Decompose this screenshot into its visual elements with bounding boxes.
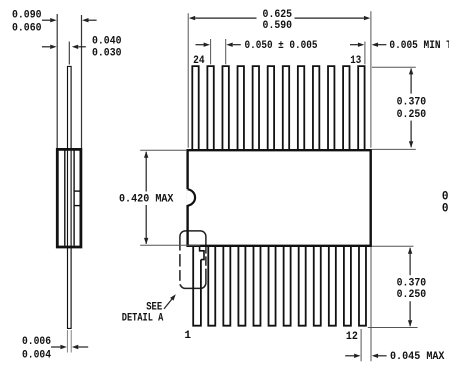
pin 18 (283, 66, 289, 150)
wire : pin 22 centerline extension (225, 39, 227, 64)
wire : left body-edge extension up (187, 13, 189, 148)
node side body window segment upper (74, 190, 80, 192)
wire : pin-top extension right (372, 66, 416, 68)
svg-text:DETAIL A: DETAIL A (122, 313, 164, 325)
svg-text:1: 1 (184, 330, 191, 342)
IC package body (188, 150, 371, 246)
node 0.090/0.060 dimension arrows (42, 19, 50, 21)
node 0.040/0.030 dimension arrows (42, 46, 50, 48)
svg-text:12: 12 (346, 331, 358, 343)
pin 23 (207, 66, 213, 150)
svg-text:0.050 ± 0.005: 0.050 ± 0.005 (245, 40, 318, 52)
pin 17 (298, 66, 304, 150)
node 0.006/0.004 dimension arrows (51, 346, 60, 348)
node 0.370/0.250 top dimension line (410, 69, 412, 148)
svg-text:0.030: 0.030 (442, 202, 449, 216)
wire : side-view left extension line (56, 14, 58, 148)
pin 10 (329, 246, 336, 326)
package body side profile (57, 149, 81, 247)
svg-text:0.250: 0.250 (397, 109, 427, 121)
wire : lead lower extension lines (66, 330, 68, 353)
svg-text:0.370: 0.370 (397, 278, 427, 290)
svg-text:0.006: 0.006 (22, 336, 51, 348)
pin 2 (208, 246, 215, 326)
pin 9 (314, 246, 321, 326)
node 0.005 MIN dimension arrows (350, 44, 358, 46)
svg-text:0.090: 0.090 (12, 10, 42, 22)
pin 5 (253, 246, 260, 326)
pin 19 (268, 66, 274, 150)
wire : right body-edge extension up (370, 11, 372, 148)
svg-text:0.040: 0.040 (92, 35, 122, 47)
svg-text:0.045 MAX: 0.045 MAX (390, 351, 445, 363)
node 0.370/0.250 bottom dimension line (409, 248, 411, 326)
svg-text:0.005 MIN TYP: 0.005 MIN TYP (389, 40, 449, 52)
node 0.625/0.590 dimension line (195, 17, 256, 19)
wire : side body inner line right (73, 150, 75, 245)
node 0.420 MAX dimension line (145, 152, 147, 244)
wire : side-view lead (through body) (68, 66, 72, 328)
pin 6 (269, 246, 276, 326)
wire : pin 12 centerline extension down (360, 329, 362, 361)
wire : pin 23 centerline extension (210, 39, 212, 64)
wire : side body inner line left (64, 150, 66, 245)
pin 14 (343, 66, 349, 150)
wire : body-bottom extension left (140, 244, 200, 246)
svg-text:0.420 MAX: 0.420 MAX (119, 193, 174, 205)
pin 22 (222, 66, 228, 150)
svg-text:0.030: 0.030 (92, 47, 122, 59)
pin 15 (328, 66, 334, 150)
node 0.045 MAX dimension arrows (345, 355, 354, 357)
pin 13 (358, 66, 364, 150)
pin 8 (299, 246, 306, 326)
svg-text:0.004: 0.004 (22, 349, 51, 361)
wire : body-bottom extension right (372, 245, 414, 247)
pin 4 (238, 246, 245, 326)
pin 24 (192, 66, 198, 150)
svg-text:13: 13 (350, 55, 361, 67)
node SEE DETAIL A leader arrow (164, 299, 172, 309)
svg-text:0.060: 0.060 (12, 22, 42, 34)
wire : side-view right extension line (81, 15, 83, 148)
pin 21 (238, 66, 244, 150)
pin 3 (223, 246, 230, 326)
wire : pin 13 edge extension (364, 42, 366, 65)
node DETAIL A callout box (180, 231, 206, 289)
svg-text:0.250: 0.250 (397, 289, 427, 301)
pin 16 (313, 66, 319, 150)
node side body window segment lower (74, 205, 80, 207)
pin 12 (359, 246, 366, 326)
node index notch (186, 189, 189, 205)
pin 11 (344, 246, 351, 326)
wire : pin-bottom extension right (368, 327, 418, 329)
svg-text:24: 24 (193, 55, 205, 67)
wire : body-right extension down (370, 247, 372, 361)
svg-text:0.370: 0.370 (397, 96, 427, 108)
wire : body-top extension right (372, 148, 416, 150)
wire : body-top extension left (140, 149, 186, 151)
pin 7 (284, 246, 291, 326)
wire : side-view lead-edge extension line (68, 42, 70, 65)
svg-text:0.590: 0.590 (263, 20, 293, 32)
pin 1 (detail A lead) (193, 246, 201, 326)
node 0.050 dimension arrows (196, 44, 204, 46)
pin 20 (253, 66, 259, 150)
